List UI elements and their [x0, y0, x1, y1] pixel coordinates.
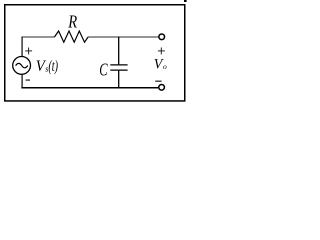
- polarity + of output: [158, 48, 165, 55]
- svg-text:C: C: [99, 59, 108, 79]
- label Vs(t): [36, 58, 58, 75]
- wire: source bottom down and right to output - terminal: [21, 75, 158, 89]
- label Vo: [154, 56, 167, 72]
- terminal: output +: [159, 34, 165, 40]
- wire: capacitor top stem: [118, 37, 120, 65]
- terminal: output -: [159, 84, 165, 90]
- polarity - of output: [155, 80, 161, 82]
- wire: source top up and right to resistor: [21, 37, 54, 57]
- capacitor C: [110, 65, 127, 70]
- wire: resistor to output + terminal: [88, 36, 158, 38]
- polarity - of source: [26, 79, 30, 81]
- wire: capacitor bottom stem: [118, 71, 120, 89]
- svg-text:(t): (t): [48, 58, 58, 75]
- svg-text:o: o: [163, 62, 167, 71]
- svg-text:R: R: [67, 12, 77, 32]
- ac source Vs: [13, 57, 31, 75]
- polarity + of source: [25, 48, 32, 55]
- resistor R: [54, 31, 88, 42]
